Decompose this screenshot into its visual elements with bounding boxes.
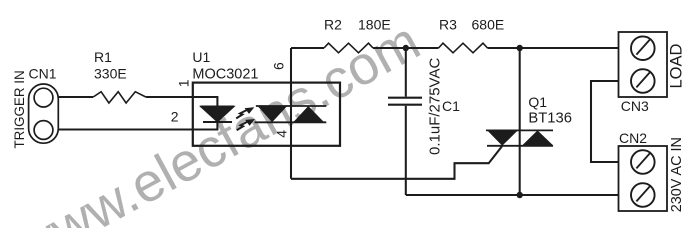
top rail wire from pin6 to R2 bbox=[291, 47, 324, 49]
LED inside U1 : anode line bbox=[200, 105, 234, 107]
svg-text:330E: 330E bbox=[94, 66, 127, 82]
svg-text:Q1: Q1 bbox=[528, 94, 547, 110]
resistor R1 bbox=[93, 92, 146, 103]
svg-text:CN3: CN3 bbox=[621, 98, 649, 114]
bottom rail wire bbox=[406, 194, 619, 196]
phototriac bottom line bbox=[255, 121, 327, 123]
triac Q1 top line bbox=[486, 129, 553, 131]
resistor R3 bbox=[439, 43, 488, 53]
svg-text:CN1: CN1 bbox=[29, 66, 57, 82]
connector CN3 bbox=[619, 32, 668, 97]
phototriac triangle left bbox=[258, 106, 288, 122]
svg-text:MOC3021: MOC3021 bbox=[192, 67, 258, 83]
capacitor C1 top plate bbox=[388, 97, 422, 99]
svg-text:4: 4 bbox=[273, 130, 289, 138]
svg-text:2: 2 bbox=[171, 109, 179, 125]
phototriac top line bbox=[256, 105, 326, 107]
svg-text:TRIGGER IN: TRIGGER IN bbox=[12, 70, 27, 148]
wire CN3 bottom to CN2 top bbox=[591, 81, 619, 162]
CN1 pin hole bottom bbox=[34, 121, 53, 140]
connector CN2 bbox=[619, 146, 668, 211]
svg-text:BT136: BT136 bbox=[528, 111, 572, 127]
capacitor C1 top lead bbox=[405, 48, 407, 97]
svg-text:R1: R1 bbox=[94, 49, 112, 65]
junction node at Q1 top bbox=[517, 45, 523, 51]
svg-text:1: 1 bbox=[176, 79, 192, 87]
LED cathode bar bbox=[203, 121, 232, 123]
light arrow lower bbox=[237, 121, 248, 130]
svg-text:C1: C1 bbox=[442, 98, 460, 114]
pin 6 / pin 4 vertical wire bbox=[290, 48, 292, 179]
wire R2 to R3 bbox=[373, 47, 439, 49]
triac Q1 bottom line bbox=[487, 145, 553, 147]
capacitor C1 bottom plate bbox=[388, 104, 422, 106]
CN2 screw terminal bottom bbox=[631, 183, 655, 207]
svg-text:230V AC IN: 230V AC IN bbox=[669, 137, 685, 212]
svg-text:680E: 680E bbox=[472, 17, 505, 33]
wire R3 to CN3 bbox=[488, 47, 619, 49]
CN2 screw terminal top bbox=[631, 150, 655, 174]
wire CN1 top to R1 (node pin1 net) bbox=[58, 96, 93, 98]
CN3 screw terminal top bbox=[631, 36, 655, 60]
svg-text:180E: 180E bbox=[358, 17, 391, 33]
resistor R2 bbox=[324, 43, 373, 53]
triac Q1 vertical wire bbox=[519, 48, 521, 195]
CN1 pin hole top bbox=[34, 88, 53, 107]
svg-text:LOAD: LOAD bbox=[668, 43, 686, 88]
phototriac triangle right bbox=[293, 106, 324, 122]
svg-text:R2: R2 bbox=[324, 17, 342, 33]
junction node at C1 top bbox=[403, 45, 409, 51]
svg-text:U1: U1 bbox=[192, 49, 210, 65]
LED triangle bbox=[200, 106, 234, 122]
svg-text:CN2: CN2 bbox=[619, 130, 647, 146]
wire R1 to U1 pin1 bbox=[146, 97, 218, 106]
triac Q1 triangle right bbox=[522, 130, 554, 145]
light arrow upper bbox=[236, 110, 247, 119]
gate wire from pin4 to Q1 gate bbox=[291, 146, 502, 179]
capacitor C1 bottom lead bbox=[405, 106, 407, 195]
svg-text:6: 6 bbox=[271, 62, 287, 70]
connector CN1 bbox=[29, 84, 59, 143]
wire CN1 bottom to U1 pin2 bbox=[58, 122, 217, 130]
CN3 screw terminal bottom bbox=[631, 69, 655, 93]
triac Q1 triangle left bbox=[487, 130, 518, 145]
junction node at Q1 bottom bbox=[517, 192, 523, 198]
svg-text:R3: R3 bbox=[439, 17, 457, 33]
svg-text:0.1uF/275VAC: 0.1uF/275VAC bbox=[427, 58, 444, 155]
optocoupler U1 box bbox=[193, 83, 340, 146]
